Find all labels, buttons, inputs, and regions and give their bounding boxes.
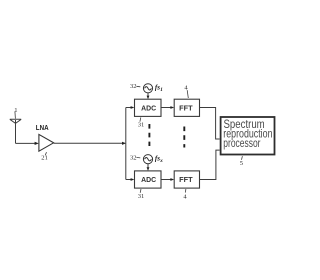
label 31 leader (bottom) [139, 189, 142, 193]
wire oscillator to ADCx [147, 164, 149, 169]
label 32 leader (top) [136, 85, 140, 88]
ADC 31 (top) box [135, 99, 162, 116]
svg-text:32: 32 [130, 155, 137, 162]
wire FFT1 to processor [200, 108, 220, 140]
ellipsis dashes right [183, 127, 185, 148]
svg-text:ADC: ADC [141, 175, 157, 184]
wire branch to ADC1 [126, 107, 133, 109]
svg-text:21: 21 [41, 155, 48, 162]
svg-text:32: 32 [130, 83, 137, 90]
label 21 leader [45, 152, 46, 155]
arrowhead into ADCx [131, 178, 135, 181]
label 1 leader [14, 111, 17, 118]
branch vertical wire [125, 108, 127, 180]
wire oscillator to ADC1 [147, 93, 149, 97]
FFT 4 (top) box [174, 99, 199, 116]
wire ADCx to FFTx [161, 179, 172, 181]
wire antenna to LNA [16, 142, 37, 144]
oscillator fs1 (top) [143, 84, 152, 93]
oscillator fsx (bottom) [143, 155, 152, 164]
wire ADC1 to FFT1 [161, 107, 172, 109]
op-amp LNA triangle [39, 134, 54, 151]
svg-text:1: 1 [14, 107, 17, 114]
svg-text:FFT: FFT [179, 103, 193, 112]
label 4 leader (top) [187, 90, 188, 98]
wire branch to ADCx [126, 179, 133, 181]
wire LNA to branch node [54, 142, 124, 144]
label 31 leader (top) [139, 117, 142, 121]
wire FFTx to processor [200, 150, 220, 179]
arrowhead into FFT1 [170, 106, 174, 109]
arrowhead into LNA [35, 142, 39, 145]
svg-text:LNA: LNA [36, 123, 49, 132]
svg-text:ADC: ADC [141, 103, 157, 112]
spectrum reproduction processor box U5 [221, 117, 275, 155]
arrowhead into ADC1 [131, 106, 135, 109]
ellipsis dashes left [148, 124, 150, 146]
svg-text:31: 31 [138, 193, 145, 200]
label 5 leader [241, 156, 244, 160]
label 32 leader (bottom) [136, 156, 140, 159]
svg-text:processor: processor [223, 136, 260, 150]
arrowhead into ADC1 top [147, 96, 150, 100]
label 4 leader (bottom) [184, 189, 187, 193]
ADC 31 (bottom) box [135, 171, 162, 188]
antenna [10, 119, 21, 143]
arrowhead into FFTx [170, 178, 174, 181]
arrowhead into ADCx top [147, 167, 150, 171]
svg-text:31: 31 [138, 122, 145, 129]
svg-text:FFT: FFT [179, 175, 193, 184]
FFT 4 (bottom) box [174, 171, 199, 188]
arrowhead at branch node [122, 142, 126, 145]
